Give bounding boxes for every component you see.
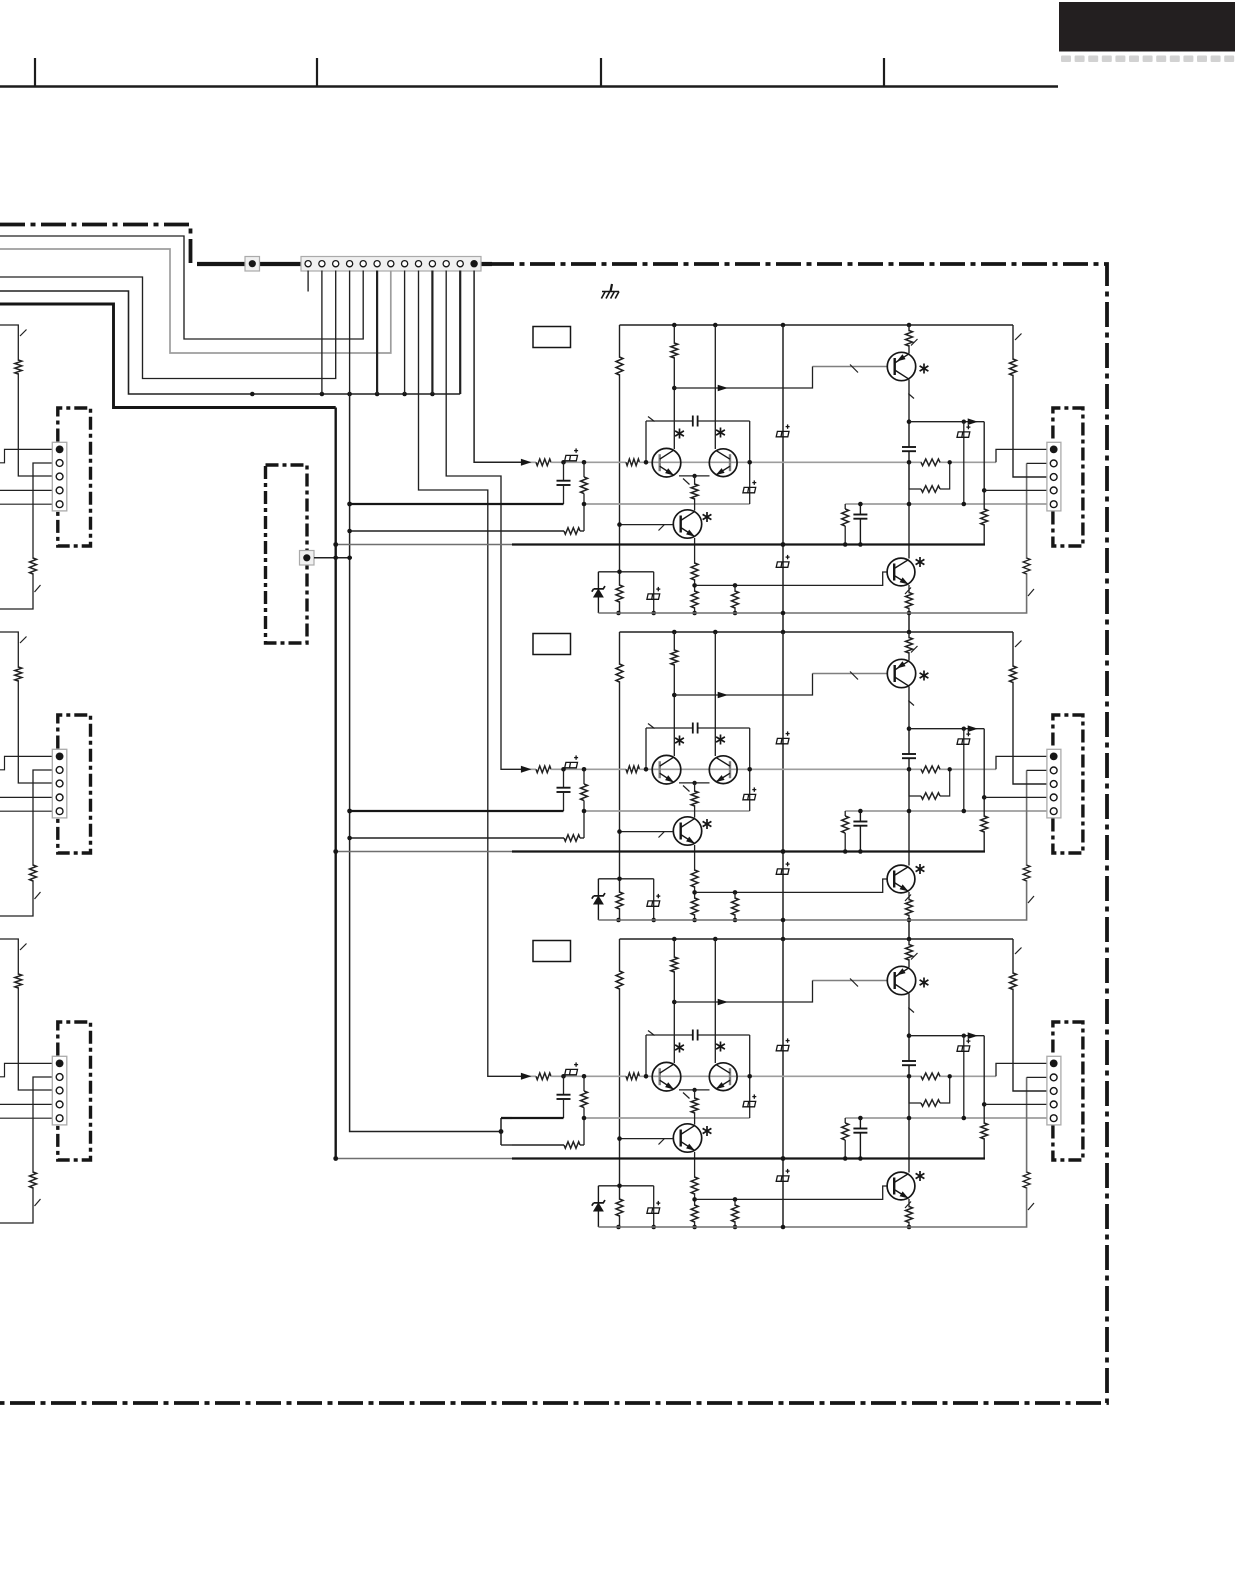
crossing tick (1028, 589, 1034, 596)
wire grey row right (845, 503, 1047, 505)
junction (692, 1225, 697, 1230)
junction (962, 420, 966, 424)
arrowhead (968, 725, 978, 732)
junction (948, 767, 952, 771)
wire arrow line to Q1 base (674, 674, 812, 696)
resistor pin2 (30, 865, 37, 881)
wire emitters join (679, 475, 710, 477)
wire Q1 emitter down (908, 994, 910, 1036)
wire resistor bias (615, 1200, 624, 1215)
resistor pair (922, 765, 939, 774)
title tick (316, 58, 318, 87)
wire staircase 5 thick (0, 304, 336, 408)
junction pin4 row (982, 1102, 987, 1107)
wire Q3 base row (620, 524, 674, 526)
junction (962, 809, 967, 814)
polar cap symbol (743, 787, 756, 799)
wire arrow line to Q1 base (674, 981, 812, 1003)
resistor x735 (732, 1205, 739, 1222)
capacitor (902, 422, 916, 463)
resistor RC (842, 509, 849, 526)
crossing tick (850, 672, 858, 680)
wire bias box top (598, 1185, 653, 1187)
arrowhead (718, 692, 728, 699)
junction (561, 1074, 566, 1079)
resistor x584 (583, 1076, 585, 1091)
transistor Q2b (709, 756, 737, 784)
crossing tick (905, 895, 911, 902)
resistor pair (922, 458, 939, 467)
wire diff box top (646, 727, 693, 729)
crossing tick (1028, 896, 1034, 903)
junction (907, 937, 912, 942)
wire emitters join (679, 782, 710, 784)
wire pin4 row (984, 1103, 1047, 1105)
junction (781, 323, 786, 328)
arrowhead input (521, 766, 532, 773)
wire pin4 row (984, 796, 1047, 798)
wire staircase 1 (0, 236, 363, 339)
resistor Q3 e1 (691, 563, 698, 580)
resistor feedback (564, 1142, 580, 1149)
resistor x1026 (1023, 558, 1030, 574)
wire pin2 row (1027, 462, 1047, 464)
resistor input (536, 766, 551, 773)
crossing tick (850, 365, 858, 373)
zener diode (592, 879, 605, 920)
wire staircase 3 (0, 271, 336, 379)
wire thick into CN squares (197, 262, 301, 266)
wire thick cap row (512, 810, 564, 812)
junction (651, 1225, 656, 1230)
capacitor (853, 811, 867, 852)
wire pin2 row (1027, 1076, 1047, 1078)
wire Q3 base row (620, 831, 674, 833)
wire pin2 chain (0, 463, 52, 609)
resistor x674 (671, 650, 678, 665)
wire left vertical (619, 325, 621, 613)
wire Q4 emitter (908, 892, 910, 920)
wire x653 (653, 572, 655, 613)
wire Q1 collector (908, 632, 910, 661)
resistor feedback (564, 528, 580, 535)
capacitor (853, 504, 867, 545)
wire x984 down (983, 422, 985, 545)
polar cap symbol (776, 555, 789, 567)
capacitor input (563, 462, 565, 480)
wire bottom rail (598, 770, 1026, 920)
junction (907, 419, 912, 424)
wire grey row right (845, 810, 1047, 812)
capacitor diff feedback (692, 1030, 694, 1041)
resistor x584 (581, 1091, 588, 1108)
resistor bias (616, 892, 623, 909)
crossing tick (905, 1202, 911, 1209)
junction (747, 767, 752, 772)
wire x674 (673, 325, 675, 449)
polar cap symbol (743, 1094, 756, 1106)
junction (907, 767, 912, 772)
wire thick mid rail (512, 1157, 985, 1159)
wire junction column block3 (500, 1118, 502, 1145)
wire diff box top (646, 420, 693, 422)
wire pin2 chain (0, 1077, 52, 1223)
capacitor (902, 729, 916, 770)
wire Q3 emitter chain (694, 1152, 696, 1227)
wire pin3 column (1013, 939, 1047, 1091)
wire x735 resistor (734, 1199, 736, 1227)
connector 5pin right (1047, 442, 1061, 511)
junction (672, 630, 677, 635)
junction (781, 849, 786, 854)
wire x653 (653, 1186, 655, 1227)
star mark (916, 864, 925, 874)
junction (858, 1116, 863, 1121)
wire input row (grey) (521, 1075, 536, 1077)
transistor Q4 (887, 865, 915, 893)
wire grey row right (845, 1117, 1047, 1119)
resistor x1026 (1023, 865, 1030, 881)
capacitor diff feedback (692, 723, 694, 734)
label box (533, 327, 571, 348)
junction (250, 392, 255, 397)
wire x984 down (983, 1036, 985, 1159)
wire diff box right (749, 728, 751, 811)
wire tail current (694, 783, 696, 818)
resistor x584 (583, 462, 585, 477)
junction pin4 row (982, 488, 987, 493)
middle board-area dash-dot box (266, 465, 308, 643)
title tick (883, 58, 885, 87)
wire thick cap row (512, 503, 564, 505)
transistor Q1 (887, 966, 915, 994)
wire x715 (714, 939, 716, 1063)
junction (781, 1225, 786, 1230)
transistor Q1 (887, 352, 915, 380)
arrowhead (968, 418, 978, 425)
wire pin2 row (1027, 769, 1047, 771)
wire left vertical (619, 632, 621, 920)
crossing tick (20, 330, 27, 337)
resistor Q3 e2 (691, 591, 698, 608)
junction (651, 611, 656, 616)
polar cap symbol (647, 1201, 660, 1213)
wire base feed Q1 (grey) (813, 673, 888, 675)
wire diff box right (749, 1035, 751, 1118)
junction (747, 1074, 752, 1079)
resistor x735 (732, 898, 739, 915)
crossing tick (683, 1093, 690, 1099)
wire x735 resistor (734, 585, 736, 613)
dash-dot box left connector (58, 715, 91, 853)
resistor x584 (583, 769, 585, 784)
wire pin1 (0, 449, 52, 462)
transistor Q3 (673, 1124, 701, 1152)
resistor feed (15, 974, 22, 988)
resistor left (616, 664, 623, 682)
crossing tick (911, 646, 918, 653)
crossing tick (911, 953, 918, 960)
resistor Q3 e1 (691, 870, 698, 887)
junction (907, 611, 912, 616)
wire row to pin1 (996, 756, 1047, 769)
connector CN square (top) (245, 257, 260, 272)
wire Q4 emitter (908, 585, 910, 613)
junction (781, 542, 786, 547)
wire top rail (620, 631, 1014, 633)
junction (733, 583, 738, 588)
wire base feed Q1 (grey) (813, 980, 888, 982)
star mark (716, 428, 725, 438)
wire top rail (620, 324, 1014, 326)
title tick (600, 58, 602, 87)
resistor Q3 e1 (691, 1177, 698, 1194)
resistor pair (922, 1072, 939, 1081)
resistor tail (691, 791, 698, 806)
crossing tick (659, 832, 665, 838)
resistor pin2 (30, 1172, 37, 1188)
junction (907, 1074, 912, 1079)
junction (781, 611, 786, 616)
junction (347, 392, 352, 397)
resistor x735 (732, 591, 739, 608)
junction (692, 1088, 696, 1092)
wire staircase 4 / bus row (0, 291, 460, 394)
bus wire x349 (350, 394, 501, 1132)
wire Q4 base row (695, 879, 887, 892)
connector strip filled pin (470, 260, 477, 267)
junction (858, 849, 863, 854)
resistor left (616, 971, 623, 989)
transistor Q3 (673, 510, 701, 538)
resistor pin3 col (1010, 666, 1017, 683)
wire CN square to buses (314, 557, 352, 559)
junction (858, 542, 863, 547)
junction (713, 630, 718, 635)
wire pin5 (0, 1117, 52, 1119)
polar cap symbol (776, 1169, 789, 1181)
resistor Q1 collector (906, 638, 913, 654)
arrowhead (968, 1032, 978, 1039)
resistor left (616, 357, 623, 375)
junction (617, 570, 622, 575)
crossing tick (648, 724, 655, 729)
resistor r2 (921, 793, 940, 800)
star mark (675, 429, 684, 439)
wire RC to rail (844, 811, 846, 816)
wire Q4 base row (695, 1186, 887, 1199)
junction (858, 1156, 863, 1161)
star mark (703, 819, 712, 829)
wire x715 (714, 632, 716, 756)
resistor RC (842, 816, 849, 833)
star mark (703, 1126, 712, 1136)
wire left vertical (619, 939, 621, 1227)
wire diff box left (645, 1035, 647, 1076)
wire pin3 column (1013, 632, 1047, 784)
resistor Q1 collector (906, 331, 913, 347)
wire diff box left (645, 421, 647, 462)
junction pin4 row (982, 795, 987, 800)
wire x674 (673, 632, 675, 756)
junction (713, 323, 718, 328)
resistor to base (626, 459, 640, 466)
polar cap symbol (776, 424, 789, 436)
wire Q1 collector (908, 325, 910, 354)
wire pin5 (0, 810, 52, 812)
junction (644, 1074, 649, 1079)
junction (616, 918, 621, 923)
resistor pin2 (30, 558, 37, 574)
resistor bias (616, 585, 623, 602)
crossing tick (1028, 1203, 1034, 1210)
wire thick cap row (512, 1117, 564, 1119)
junction (692, 918, 697, 923)
board outline dash-dot top-left (0, 225, 191, 264)
wire row to pin1 (996, 449, 1047, 462)
connector 5pin left (52, 1056, 67, 1125)
wire bias box top (598, 571, 653, 573)
resistor x674 (671, 343, 678, 358)
wire emitters join (679, 1089, 710, 1091)
wire x984 down (983, 729, 985, 852)
arrowhead input (521, 459, 532, 466)
transistor Q1 (887, 659, 915, 687)
resistor Q4 emitter (906, 1207, 913, 1223)
resistor r1 (921, 1073, 940, 1080)
polar cap symbol (565, 1062, 578, 1074)
junction (781, 918, 786, 923)
pin wire 13 -> block1 input (474, 271, 523, 463)
junction (907, 1225, 912, 1230)
wire thick rail ext block3 (336, 1158, 512, 1160)
crossing tick (905, 588, 911, 595)
crossing tick (908, 394, 914, 399)
wire Q1 emitter down (908, 687, 910, 729)
junction (617, 829, 622, 834)
wire row to pin1 (996, 1063, 1047, 1076)
wire input row (grey) (521, 461, 536, 463)
crossing tick (659, 525, 665, 531)
junction (692, 890, 697, 895)
wire x963 down (963, 422, 965, 504)
crossing tick (1015, 948, 1022, 955)
wire tail current (694, 476, 696, 511)
connector strip (top) (301, 257, 481, 272)
wire VAS arrow line (909, 728, 984, 730)
junction (907, 1033, 912, 1038)
junction (692, 1197, 697, 1202)
wire x735 resistor (734, 892, 736, 920)
junction (672, 386, 677, 391)
junction (843, 1156, 848, 1161)
arrowhead input (521, 1073, 532, 1080)
transistor Q2a (652, 1062, 681, 1091)
wire Q3 emitter chain (694, 538, 696, 613)
resistor x984 (981, 509, 988, 525)
star mark (920, 364, 929, 374)
resistor input (536, 459, 551, 466)
junction (907, 630, 912, 635)
arrowhead (718, 385, 728, 392)
polar cap symbol (957, 1039, 970, 1051)
transistor Q3 (673, 817, 701, 845)
junction (962, 727, 966, 731)
bus wire x335 thick (335, 408, 337, 1159)
resistor x584 (581, 477, 588, 494)
junction (582, 502, 587, 507)
junction (962, 1034, 966, 1038)
junction (907, 502, 912, 507)
wire diff box top (646, 1034, 693, 1036)
capacitor input (563, 1076, 565, 1094)
wire bus stitch (782, 920, 784, 940)
wire thick mid rail (512, 850, 985, 852)
junction (582, 767, 587, 772)
resistor tail (691, 484, 698, 499)
wire Q4 collector (908, 462, 910, 558)
wire pin5 (0, 503, 52, 505)
resistor x674 (671, 957, 678, 972)
junction (907, 918, 912, 923)
wire x963 down (963, 1036, 965, 1118)
junction (616, 1225, 621, 1230)
wire feed top (0, 939, 52, 1090)
wire bus stitch (782, 613, 784, 633)
junction (402, 392, 407, 397)
wire x963 down (963, 729, 965, 811)
dash-dot box left connector (58, 408, 91, 546)
crossing tick (20, 637, 27, 644)
wire feedback row R (512, 837, 564, 839)
junction (962, 502, 967, 507)
junction (582, 1074, 587, 1079)
arrowhead (718, 999, 728, 1006)
capacitor (853, 1118, 867, 1159)
crossing tick (659, 1139, 665, 1145)
junction (781, 630, 786, 635)
resistor x984 (981, 816, 988, 832)
resistor r1 (921, 766, 940, 773)
wire Q1 emitter down (908, 380, 910, 422)
resistor to base (626, 1073, 640, 1080)
junction (692, 583, 697, 588)
wire grey row left (584, 810, 750, 812)
resistor r2 (921, 1100, 940, 1107)
resistor feed (15, 667, 22, 681)
junction (781, 937, 786, 942)
junction (616, 611, 621, 616)
junction (733, 890, 738, 895)
wire thick mid rail (512, 543, 985, 545)
crossing tick (20, 944, 27, 951)
label box (533, 634, 571, 655)
wire top rail (620, 938, 1014, 940)
star mark (716, 1042, 725, 1052)
wire pin2 chain (0, 770, 52, 916)
wire bottom rail (598, 463, 1026, 613)
transistor Q2a (652, 448, 681, 477)
dash-dot box right connector (1053, 408, 1083, 546)
junction (644, 460, 649, 465)
pin wire 2 (321, 271, 323, 395)
polar cap symbol (565, 448, 578, 460)
polar cap symbol (647, 587, 660, 599)
wire RC to rail (844, 1118, 846, 1123)
junction (692, 474, 696, 478)
wire VAS arrow line (909, 1035, 984, 1037)
junction (499, 1129, 504, 1134)
